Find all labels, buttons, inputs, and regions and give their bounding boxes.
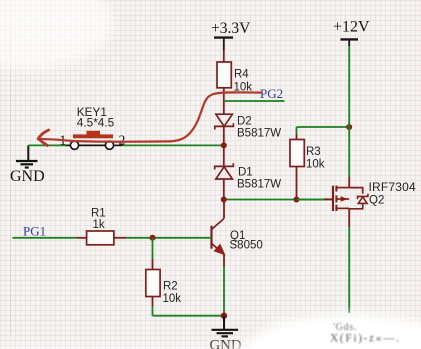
wire Q2 source down <box>348 227 350 313</box>
svg-text:1k: 1k <box>93 219 105 231</box>
junction C <box>294 197 300 203</box>
wire gate <box>297 199 325 201</box>
svg-text:4.5*4.5: 4.5*4.5 <box>77 116 115 130</box>
wire D2 to junction <box>223 126 225 166</box>
power +3.3V <box>211 20 251 50</box>
svg-text:X(Fi)-z«—.: X(Fi)-z«—. <box>330 333 401 345</box>
svg-text:GND: GND <box>10 168 45 185</box>
body diode <box>349 188 363 194</box>
wire PG1 to R1 <box>13 237 78 239</box>
svg-text:B5817W: B5817W <box>237 127 281 139</box>
resistor R1 <box>87 208 126 245</box>
wire +12V rail <box>348 46 350 177</box>
node PG2 wire <box>224 100 285 102</box>
svg-text:PG2: PG2 <box>260 86 283 101</box>
wire GND to switch <box>28 144 66 146</box>
svg-text:2: 2 <box>119 133 126 148</box>
wire D1 to collector node <box>223 179 225 200</box>
junction F <box>221 313 227 319</box>
resistor R2 <box>146 270 181 305</box>
wire R1 to base <box>126 237 212 239</box>
svg-text:R1: R1 <box>91 208 106 220</box>
wire to GND junction <box>153 315 225 317</box>
svg-text:D1: D1 <box>238 167 253 179</box>
sheet border <box>10 28 12 334</box>
wire R4 top pin <box>223 50 225 62</box>
svg-text:R4: R4 <box>234 69 249 81</box>
corner wash <box>0 0 113 70</box>
transistor Q1 S8050 <box>212 200 263 255</box>
resistor R4 <box>217 62 252 93</box>
wire switch to diode junction <box>122 144 224 146</box>
Q2 gate pin <box>324 198 333 200</box>
svg-text:Q2: Q2 <box>369 194 384 206</box>
wire emitter down <box>223 255 225 267</box>
wire R4 bottom pin to D2 <box>223 88 225 114</box>
svg-text:PG1: PG1 <box>23 223 46 238</box>
ground GND bottom <box>210 316 242 349</box>
watermark <box>0 314 421 349</box>
switch KEY1 <box>60 105 126 149</box>
svg-text:B5817W: B5817W <box>237 178 281 190</box>
annotation red arrow <box>38 92 261 145</box>
svg-text:10k: 10k <box>306 158 325 170</box>
junction E <box>150 235 156 241</box>
svg-text:+12V: +12V <box>333 18 370 35</box>
svg-text:IRF7304: IRF7304 <box>369 180 417 194</box>
diode D2 B5817W <box>215 114 281 139</box>
MOSFET Q2 IRF7304 <box>333 177 416 227</box>
diode D1 B5817W <box>215 163 282 190</box>
wire collector node to gate <box>224 199 333 201</box>
svg-text:R3: R3 <box>306 146 321 158</box>
wire R3 top to +12V rail <box>297 126 350 128</box>
junction B <box>221 197 227 203</box>
power +12V <box>333 18 370 46</box>
ground GND left <box>10 145 45 184</box>
svg-text:+3.3V: +3.3V <box>211 20 251 37</box>
wire junction to R2 <box>152 238 154 259</box>
resistor R3 <box>290 127 325 200</box>
svg-text:D2: D2 <box>237 116 252 128</box>
junction D <box>346 124 352 130</box>
svg-text:'Gds.: 'Gds. <box>333 322 357 333</box>
wire R2 bottom to ground wire <box>152 297 154 307</box>
svg-text:R2: R2 <box>163 281 178 293</box>
svg-text:S8050: S8050 <box>230 240 263 252</box>
junction A <box>221 142 227 148</box>
svg-text:10k: 10k <box>163 293 182 305</box>
